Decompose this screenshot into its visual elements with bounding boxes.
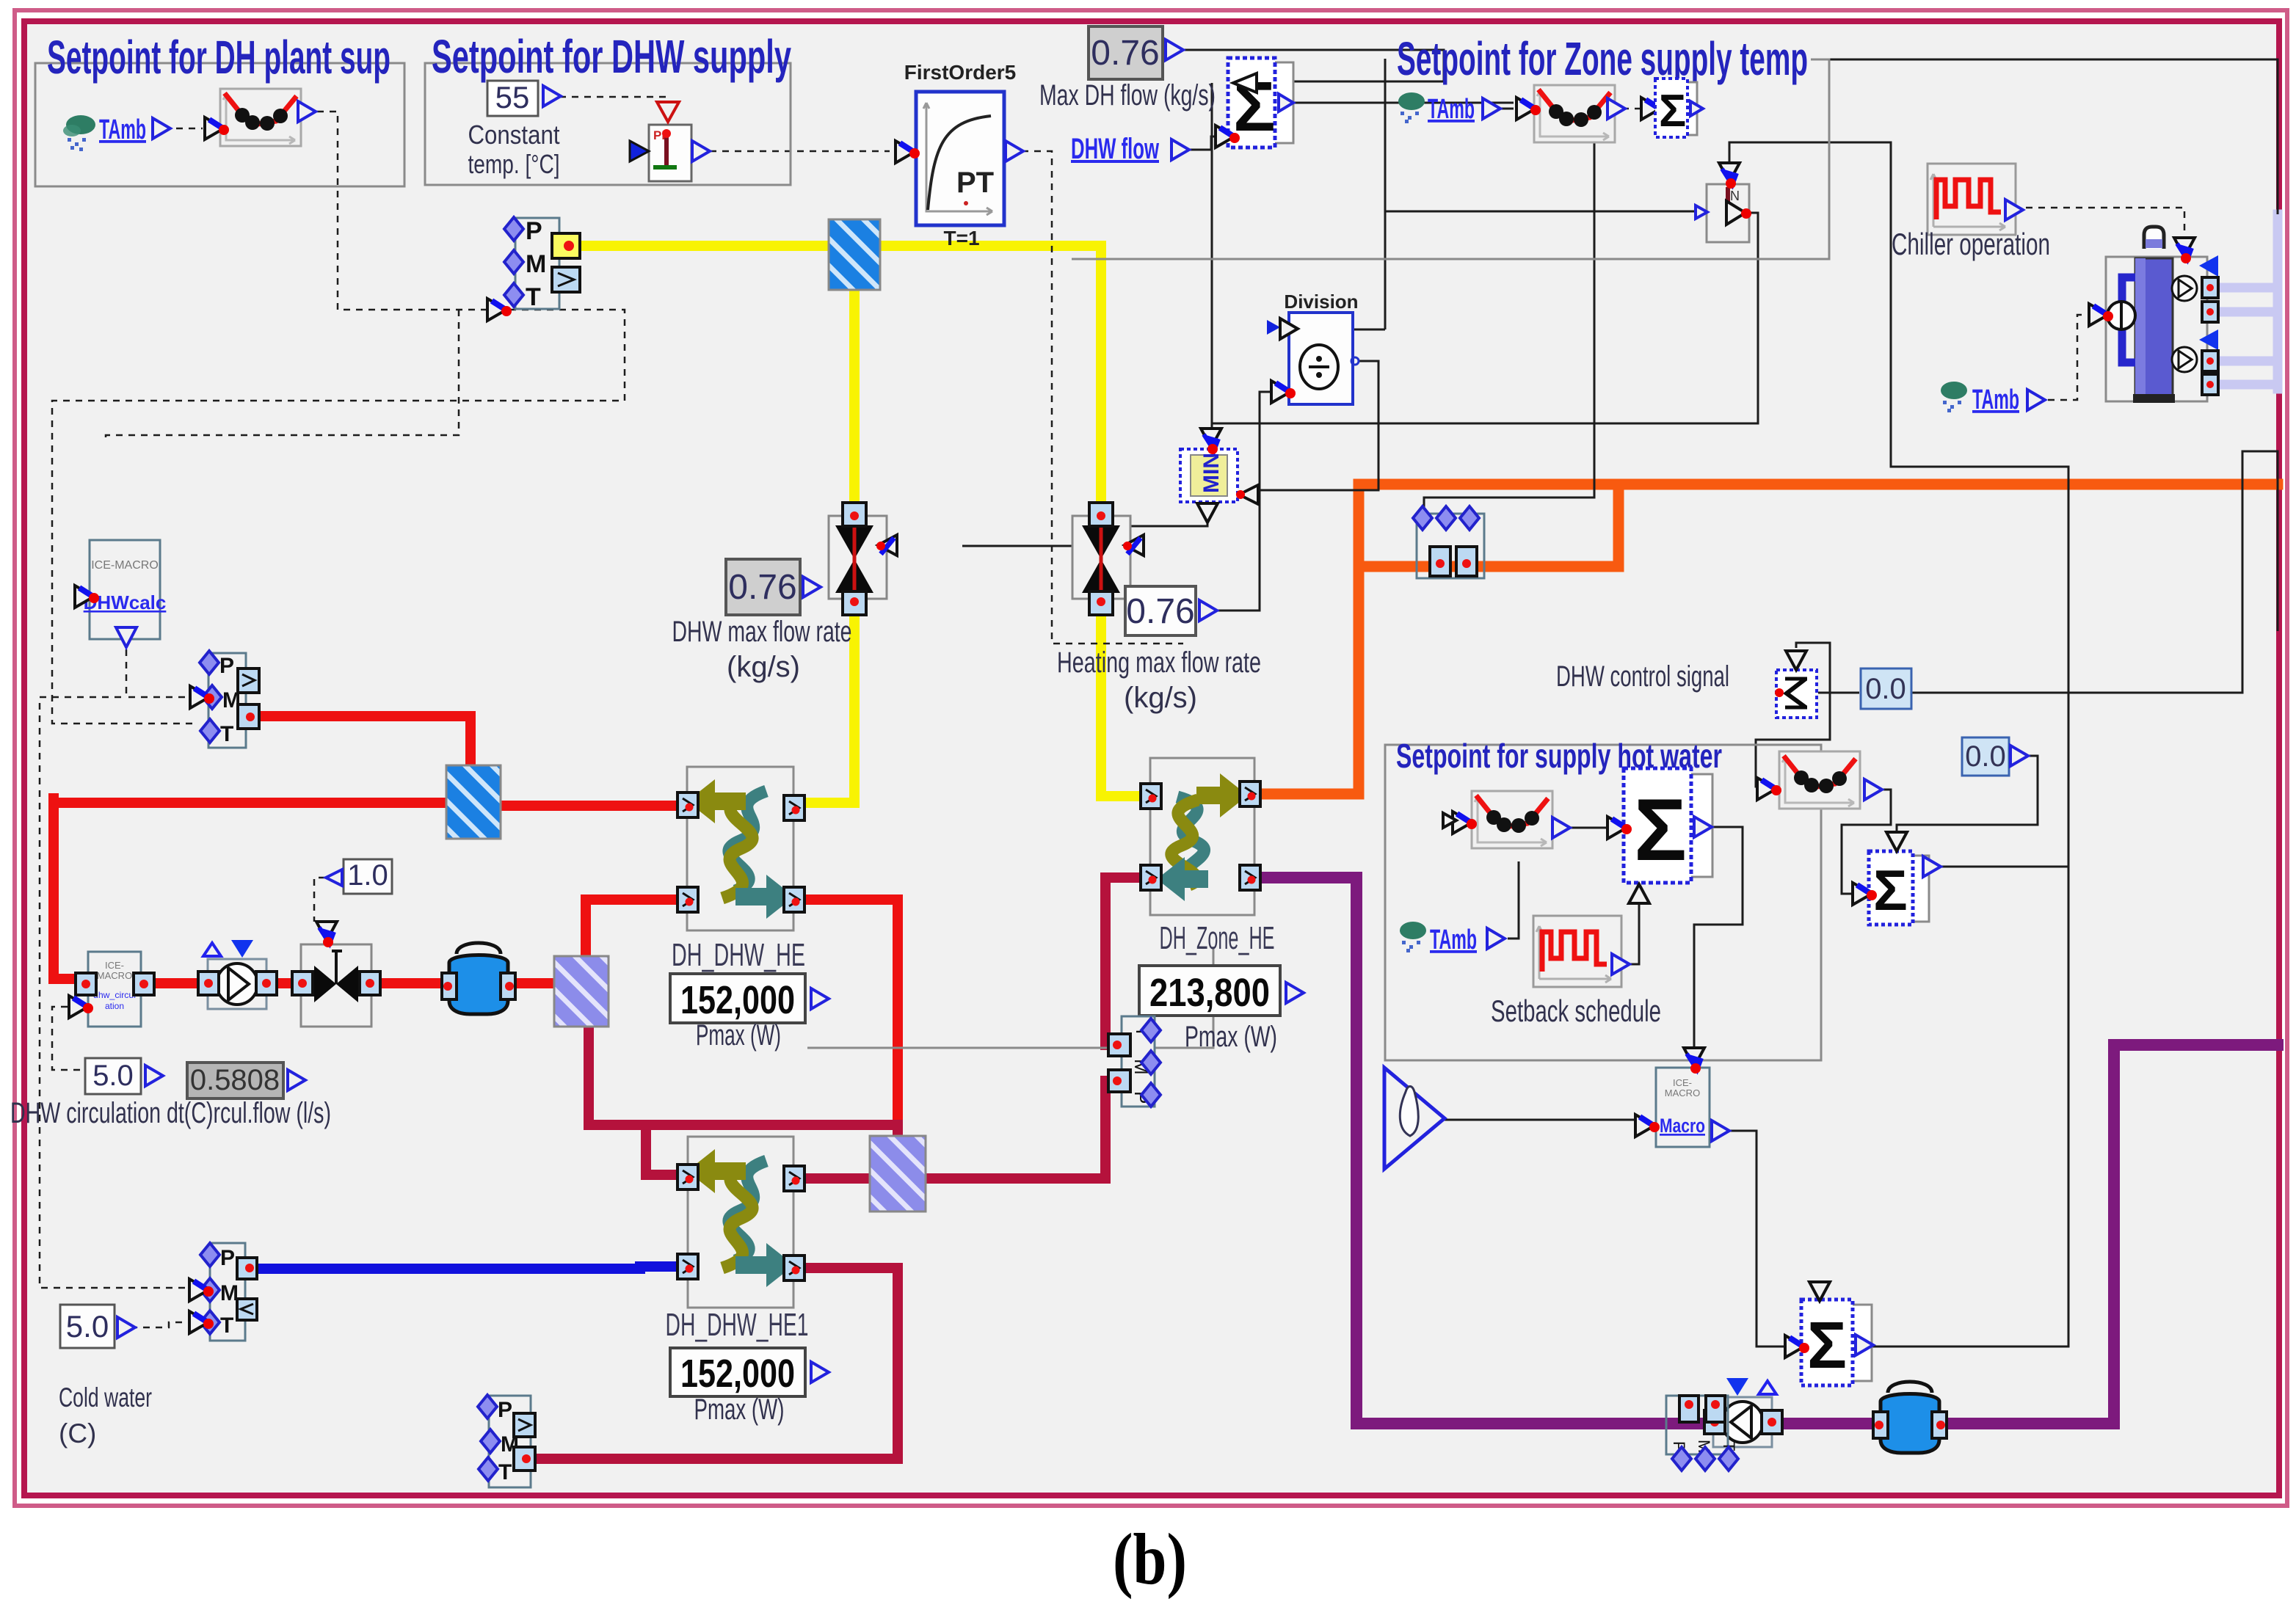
- spline1 input triangle: [205, 117, 229, 139]
- DH_Zone_HE heat exchanger: [1141, 758, 1260, 915]
- svg-text:temp. [°C]: temp. [°C]: [468, 149, 560, 179]
- dashed 55 to PI: [559, 97, 666, 100]
- setback output triangle: [1612, 954, 1630, 974]
- Sum5 top input triangle: [1886, 832, 1907, 851]
- Sum2 output triangle: [1690, 101, 1703, 116]
- MIN block: [1180, 449, 1238, 502]
- wire spline3 to Sum3: [1570, 827, 1607, 829]
- red pipe long into DH_DHW_HE: [54, 798, 449, 808]
- DHW max flow valve: [829, 503, 887, 615]
- spline4 output triangle: [1864, 779, 1882, 800]
- svg-text:(b): (b): [1113, 1518, 1187, 1600]
- dashed DHWcalc to PMT2 M: [126, 649, 191, 697]
- Sum6 block: [1801, 1300, 1872, 1385]
- crimson zone HE bottom-left to TWP: [1105, 878, 1147, 1045]
- svg-text:MACRO: MACRO: [1665, 1087, 1700, 1098]
- svg-text:Heating max flow rate: Heating max flow rate: [1057, 646, 1261, 679]
- svg-text:Max DH flow (kg/s): Max DH flow (kg/s): [1039, 79, 1216, 112]
- tank 1: [442, 943, 515, 1014]
- dashed zone spline2 to Sum2: [1622, 108, 1640, 110]
- tank 2: [1873, 1382, 1947, 1453]
- label DHW max flow rate: [672, 616, 852, 683]
- 0.5808 gray box: [187, 1063, 283, 1098]
- wire Sum5 out: [1939, 866, 2068, 868]
- purple return pipe: [1246, 878, 2278, 1424]
- Sum4 top input triangle: [1786, 651, 1806, 670]
- svg-text:TAmb: TAmb: [1428, 94, 1475, 125]
- spline block 4: [1779, 751, 1860, 809]
- circ valve top input triangle: [316, 922, 337, 947]
- Division block: [1289, 313, 1359, 404]
- TAmb2 output triangle: [1483, 98, 1500, 119]
- wire TAmb zone to spline: [1499, 108, 1514, 110]
- Sum3 output triangle: [1694, 817, 1712, 837]
- svg-text:Setback schedule: Setback schedule: [1491, 994, 1661, 1028]
- svg-text:0.0: 0.0: [1965, 740, 2006, 773]
- svg-text:T: T: [220, 1313, 233, 1338]
- spline4 input triangles: [1757, 778, 1781, 800]
- svg-text:Division: Division: [1284, 291, 1358, 313]
- wire N-block feed: [1385, 211, 1700, 213]
- svg-text:T: T: [526, 283, 541, 311]
- crimson TWP lower port stub: [1105, 1076, 1114, 1086]
- wire 0.0b chain to Sum5 top: [1897, 756, 2038, 832]
- Macro input triangle: [1635, 1115, 1660, 1137]
- Sum5 input triangle: [1853, 883, 1877, 905]
- orange junction measure block: [1413, 506, 1484, 578]
- crimson HE1 top-right to hatch4: [791, 1173, 872, 1184]
- svg-text:1.0: 1.0: [347, 859, 388, 892]
- svg-text:ICE-: ICE-: [1673, 1077, 1692, 1088]
- ICE-MACRO Macro block: [1656, 1068, 1710, 1147]
- dashed 5.0b to PMT3 T: [131, 1322, 189, 1327]
- svg-text:0.76: 0.76: [1126, 592, 1194, 631]
- 152000 box2 output triangle: [811, 1362, 829, 1382]
- dashed chiller op to chiller: [2026, 208, 2184, 238]
- chiller pump circle: [2107, 302, 2135, 329]
- 5.0 box b: [60, 1305, 115, 1348]
- Sum1 lower input triangle: [1216, 125, 1240, 147]
- yellow branch to DH_DHW_HE: [796, 246, 854, 803]
- PMT3 T input triangle: [189, 1311, 214, 1333]
- Macro output triangle: [1712, 1120, 1729, 1141]
- svg-text:P: P: [219, 654, 234, 678]
- wire R2 branch down to Division: [1293, 59, 1385, 329]
- valve1 control input arrow: [876, 535, 897, 555]
- 152000 value box 2: [670, 1348, 805, 1396]
- svg-text:0.0: 0.0: [1865, 673, 1906, 705]
- PMT2 source block: [200, 651, 259, 748]
- 213800 value box: [1139, 966, 1280, 1016]
- Sum3 bottom input triangle: [1629, 884, 1649, 903]
- N left input triangle: [1696, 205, 1707, 219]
- wire TAmb3 up to spline3: [1508, 861, 1519, 939]
- dashed branch left down to cold-water PMT: [40, 697, 189, 1288]
- svg-text:152,000: 152,000: [680, 978, 795, 1022]
- svg-text:M: M: [526, 250, 546, 278]
- wire 0.76 to Sum1: [1182, 50, 1444, 81]
- dashed 1.0 to valve: [314, 878, 325, 922]
- label Constant temp: [468, 120, 560, 179]
- crimson jog into HE1 top-left: [646, 1125, 686, 1175]
- dashed continue to left loop into PMT2 T: [52, 310, 625, 724]
- svg-text:55: 55: [495, 80, 530, 114]
- Sum2 input triangle: [1641, 98, 1665, 120]
- wire Sum3 out to Macro: [1694, 827, 1743, 1048]
- PI controller block: [649, 125, 691, 181]
- wire Division out to MIN: [1257, 361, 1378, 490]
- svg-text:ICE-: ICE-: [105, 960, 124, 971]
- svg-text:FirstOrder5: FirstOrder5: [904, 61, 1017, 84]
- svg-text:Setpoint for Zone supply temp: Setpoint for Zone supply temp: [1397, 32, 1808, 85]
- 0.76 white box valve2: [1125, 586, 1196, 635]
- hatch square 2 on red line: [446, 765, 501, 839]
- spline block 2: [1534, 85, 1615, 142]
- svg-text:T: T: [498, 1460, 512, 1484]
- wire valve2 value to Division: [1210, 392, 1271, 611]
- cloud icon TAmb2: [1398, 92, 1425, 123]
- Sum5 output triangle: [1923, 856, 1941, 877]
- wire zone value drop to junction block: [1424, 135, 1594, 514]
- zone TWP measure block: [1108, 1016, 1160, 1107]
- chiller left loop pipe: [2122, 277, 2135, 362]
- Sum6 top input triangle: [1809, 1282, 1830, 1301]
- svg-text:Chiller operation: Chiller operation: [1892, 227, 2050, 261]
- chiller fan 1: [2172, 276, 2197, 301]
- svg-text:Σ: Σ: [1634, 781, 1687, 879]
- crimson hatch3 down and right: [589, 1024, 898, 1138]
- spline block 3: [1472, 791, 1552, 848]
- red pipe HE bottom-left to hatch3: [586, 900, 686, 958]
- DHWcalc bottom output triangle: [116, 627, 137, 647]
- dashed PT out down to valve2: [1022, 151, 1183, 644]
- DHW flow output triangle: [1171, 139, 1189, 160]
- Division upper input triangles: [1267, 318, 1298, 339]
- pump2 left port: [1704, 1410, 1725, 1434]
- cloud icon TAmb1: [63, 115, 95, 151]
- Sum6 output triangle: [1856, 1335, 1873, 1355]
- spline1 output triangle: [298, 101, 316, 122]
- Sum2 block: [1655, 79, 1697, 137]
- 5.0 box a: [85, 1058, 141, 1094]
- Sum1 output triangle: [1279, 94, 1293, 112]
- Heating max flow valve: [1072, 503, 1130, 615]
- svg-text:Constant: Constant: [468, 120, 560, 150]
- svg-text:P: P: [526, 217, 542, 245]
- svg-text:Pmax (W): Pmax (W): [694, 1393, 785, 1426]
- TAmb1 output triangle: [153, 118, 170, 139]
- chiller control triangle: [2174, 238, 2195, 263]
- svg-text:dhw_circul: dhw_circul: [93, 990, 136, 1000]
- svg-text:Cold water: Cold water: [59, 1382, 152, 1413]
- 0.76 gray box valve1: [726, 559, 800, 615]
- svg-text:152,000: 152,000: [680, 1352, 795, 1396]
- dashed TAmb4 to chiller pump: [2048, 315, 2088, 400]
- svg-text:MIN: MIN: [1199, 453, 1224, 493]
- svg-text:DHW flow: DHW flow: [1071, 133, 1160, 165]
- svg-text:(C): (C): [59, 1418, 96, 1449]
- group box Setpoint for DHW supply: [425, 30, 791, 185]
- PMT3 M input triangle: [189, 1279, 214, 1301]
- purple measure block PMT5: [1666, 1396, 1738, 1471]
- Sum3 input triangle: [1607, 817, 1632, 839]
- chiller assembly: [2089, 227, 2218, 403]
- wire Macro out to Sum6: [1728, 1131, 1785, 1347]
- orange junction run: [1359, 484, 1619, 566]
- svg-text:MACRO: MACRO: [97, 970, 132, 981]
- svg-text:ICE-MACRO: ICE-MACRO: [91, 559, 159, 572]
- svg-text:Σ: Σ: [1659, 86, 1686, 136]
- svg-text:T=1: T=1: [943, 227, 979, 249]
- dashed branch x625 down left: [106, 310, 459, 441]
- svg-text:TAmb: TAmb: [1430, 925, 1477, 955]
- chiller op output triangle: [2005, 200, 2023, 220]
- svg-text:DHW circulation dt(C)rcul.flow: DHW circulation dt(C)rcul.flow (l/s): [10, 1097, 331, 1129]
- svg-text:0.5808: 0.5808: [190, 1064, 280, 1096]
- hatch square 1 on yellow line: [829, 219, 880, 290]
- svg-text:0.76: 0.76: [728, 568, 796, 607]
- red pipe hatch to HE: [498, 801, 683, 811]
- pump 1: [203, 940, 266, 1009]
- svg-text:5.0: 5.0: [92, 1060, 134, 1092]
- spline block 1: [220, 89, 301, 146]
- wire gray L mid-bottom: [807, 947, 1213, 1048]
- N relay block: [1707, 184, 1751, 242]
- wire zone title corner to right: [1829, 59, 2278, 214]
- 152000 value box 1: [670, 974, 805, 1023]
- setback schedule block: [1533, 916, 1621, 987]
- red pipe circulation row: [144, 978, 558, 988]
- chiller blue triangle 2: [2199, 329, 2218, 350]
- PI top input red triangle: [657, 102, 679, 122]
- 55 constant box: [487, 80, 538, 116]
- wire gain out to Macro: [1445, 1119, 1635, 1121]
- group box Setpoint for supply hot water: [1385, 737, 1821, 1060]
- N top input triangle: [1719, 163, 1740, 189]
- 1.0 box: [344, 859, 392, 894]
- chiller top cap: [2144, 227, 2164, 249]
- PT output triangle: [1006, 141, 1023, 161]
- 213800 output triangle: [1286, 983, 1304, 1003]
- svg-text:(kg/s): (kg/s): [727, 651, 800, 683]
- 0.76 top output triangle: [1166, 40, 1183, 60]
- svg-text:P: P: [220, 1246, 235, 1270]
- dashed wires: [40, 97, 2184, 1327]
- wire 0.0 to right riser: [1911, 451, 2278, 693]
- PT input triangle: [895, 141, 920, 163]
- orange main to right border: [1359, 479, 2278, 490]
- svg-text:DH_DHW_HE: DH_DHW_HE: [672, 937, 805, 973]
- Sum5 block: [1869, 851, 1929, 925]
- 1.0 output triangle left: [326, 870, 342, 886]
- MIN bottom output triangle: [1197, 503, 1218, 522]
- 0.76 valve1 output triangle: [803, 577, 821, 597]
- svg-text:DHW control signal: DHW control signal: [1556, 660, 1729, 693]
- svg-text:T: T: [220, 722, 233, 746]
- svg-text:N: N: [1730, 189, 1740, 203]
- 0.76 valve2 output triangle: [1199, 600, 1217, 621]
- svg-text:DH_Zone_HE: DH_Zone_HE: [1160, 920, 1275, 956]
- label Heating max flow rate: [1057, 646, 1261, 714]
- svg-text:ation: ation: [105, 1001, 124, 1011]
- PMT1 T input triangle: [487, 299, 512, 321]
- PI output triangle: [692, 141, 710, 161]
- chiller fan 2: [2172, 347, 2197, 372]
- dashed TAmb1 to spline1: [176, 128, 203, 130]
- spline3 output triangle: [1552, 817, 1570, 838]
- spline3 input triangles: [1443, 812, 1477, 834]
- dashed PI out to PT: [710, 150, 890, 153]
- svg-text:5.0: 5.0: [66, 1309, 109, 1344]
- chiller port boxes: [2202, 277, 2218, 395]
- Sum1 block: [1228, 58, 1293, 147]
- dashed 5.0a to circ macro: [52, 1007, 82, 1070]
- DHWcalc input triangle: [75, 586, 99, 608]
- TAmb4 output triangle: [2027, 390, 2045, 410]
- lavender chiller pipes: [2215, 214, 2278, 389]
- Sum4 small block: [1775, 670, 1817, 718]
- chiller pump input triangle: [2089, 304, 2113, 326]
- Sum6 input triangle: [1785, 1335, 1809, 1358]
- Division lower input triangle: [1271, 381, 1296, 403]
- svg-text:Pmax (W): Pmax (W): [696, 1019, 781, 1052]
- DH_DHW_HE1 heat exchanger: [677, 1137, 804, 1308]
- pump1 left port: [198, 972, 219, 995]
- svg-text:DH_DHW_HE1: DH_DHW_HE1: [666, 1307, 809, 1343]
- chiller operation schedule block: [1928, 164, 2016, 235]
- pump 2: [1713, 1378, 1776, 1447]
- svg-text:Σ: Σ: [1807, 1309, 1847, 1382]
- group box Setpoint for Zone supply temp: [1072, 32, 1829, 259]
- DH_DHW_HE heat exchanger: [677, 767, 804, 930]
- svg-text:213,800: 213,800: [1149, 971, 1270, 1015]
- Sum3 block: [1624, 768, 1712, 883]
- MIN right input arrow: [1236, 485, 1258, 504]
- FirstOrder5 PT block: [916, 92, 1004, 225]
- circulation control valve: [292, 944, 380, 1027]
- circ macro lower input triangle: [69, 996, 93, 1018]
- group box Setpoint for DH plant sup: [35, 31, 404, 186]
- hatch square 4 lavender: [870, 1136, 926, 1211]
- red pipe PMT2 to hatch: [258, 716, 471, 768]
- svg-text:PT: PT: [956, 167, 994, 199]
- 5.0b output triangle: [117, 1317, 135, 1338]
- DHWcalc macro block: [84, 540, 167, 639]
- TAmb3 output triangle: [1487, 928, 1505, 949]
- wire N-block out to Division row: [1212, 213, 1758, 423]
- 152000 box1 output triangle: [811, 988, 829, 1009]
- Macro top input triangle: [1684, 1048, 1704, 1074]
- PMT3 cold water block: [200, 1243, 257, 1341]
- cloud icon TAmb3: [1400, 922, 1426, 952]
- wire MIN out to valve1: [962, 522, 1207, 546]
- svg-text:TAmb: TAmb: [1972, 385, 2019, 415]
- crimson HE1 bottom-right to PMT4: [528, 1268, 898, 1459]
- chiller cylinder: [2135, 258, 2173, 399]
- crimson hatch4 right to zone riser: [923, 1084, 1105, 1178]
- wire MIN top feed: [1211, 83, 1213, 436]
- red pipe HE bottom-right down: [791, 900, 898, 1127]
- dashed valve1 input from MIN line: [962, 545, 1050, 547]
- wire setback to Sum3 bottom: [1630, 905, 1639, 964]
- svg-text:Setpoint for DHW supply: Setpoint for DHW supply: [432, 30, 791, 83]
- cloud icon TAmb4: [1941, 382, 1967, 412]
- orange zone HE out riser: [1246, 484, 1359, 794]
- svg-text:Σ: Σ: [1873, 858, 1908, 922]
- 5.0a output triangle: [145, 1065, 163, 1086]
- 0.5808 output triangle: [288, 1070, 305, 1090]
- wire big return loop Sum6 to N-block: [1729, 142, 2068, 1347]
- 0.0 box 1: [1861, 668, 1911, 709]
- MIN top input triangle: [1201, 429, 1221, 454]
- pump1 right port: [256, 972, 277, 995]
- svg-text:Pmax (W): Pmax (W): [1185, 1021, 1277, 1053]
- chiller blue triangle 1: [2199, 255, 2218, 277]
- pump2 right port: [1762, 1410, 1782, 1434]
- PMT4 block: [478, 1395, 535, 1487]
- wire DHW flow to Sum1: [1187, 136, 1214, 150]
- svg-text:(kg/s): (kg/s): [1124, 682, 1197, 714]
- label Cold water: [59, 1382, 152, 1449]
- 0.0 box2 output triangle: [2010, 746, 2028, 766]
- PMT2 M input triangle: [190, 686, 214, 708]
- 55 output triangle: [543, 86, 561, 106]
- PI left input triangle: [630, 141, 649, 161]
- svg-text:P: P: [498, 1398, 512, 1422]
- svg-text:TAmb: TAmb: [99, 114, 146, 145]
- valve2 control input arrow: [1123, 535, 1144, 555]
- spline2 input triangle: [1516, 98, 1541, 120]
- gain triangle block: [1384, 1068, 1445, 1169]
- wire sum4 to 0.0: [1818, 692, 1859, 694]
- wire Sum1 out to zone spline: [1293, 102, 1514, 104]
- 0.0 box 2: [1962, 737, 2009, 776]
- blue cold water pipe: [255, 1267, 683, 1269]
- svg-text:Macro: Macro: [1660, 1115, 1705, 1137]
- dashed spline1 out to PMT1 T: [317, 112, 486, 310]
- svg-text:Setpoint for DH plant sup: Setpoint for DH plant sup: [47, 31, 390, 84]
- DHW circulation macro block: [76, 952, 154, 1027]
- spline2 output triangle: [1607, 98, 1625, 119]
- svg-text:0.76: 0.76: [1091, 34, 1159, 73]
- wire sum4 loop to spline4: [1756, 643, 1830, 787]
- 0.76 gray box top: [1089, 26, 1163, 79]
- yellow supply pipe main: [572, 246, 1147, 796]
- red pipe left drop to circ macro: [54, 798, 85, 979]
- svg-text:DHW max flow rate: DHW max flow rate: [672, 616, 852, 648]
- PMT1 source block: [504, 217, 580, 311]
- wire spline4 chain to Sum5: [1842, 790, 1891, 894]
- hatch square 3 lavender: [554, 956, 608, 1027]
